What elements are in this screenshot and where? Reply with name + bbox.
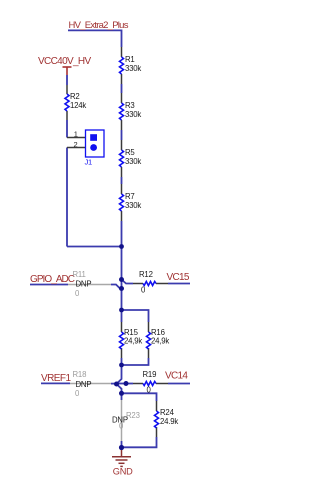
svg-text:R1: R1 xyxy=(125,55,135,64)
svg-text:HV_Extra2_Plus: HV_Extra2_Plus xyxy=(69,20,129,31)
svg-text:DNP: DNP xyxy=(76,280,92,289)
svg-text:330k: 330k xyxy=(125,201,141,210)
svg-text:R16: R16 xyxy=(151,328,165,337)
svg-text:R11: R11 xyxy=(73,270,86,279)
svg-text:DNP: DNP xyxy=(76,380,92,389)
svg-text:R23: R23 xyxy=(126,411,140,420)
svg-text:R15: R15 xyxy=(124,328,139,337)
svg-text:R19: R19 xyxy=(143,370,157,379)
svg-text:R2: R2 xyxy=(70,92,80,101)
svg-text:VCC40V_HV: VCC40V_HV xyxy=(38,56,91,67)
svg-text:GPIO_ADC: GPIO_ADC xyxy=(30,274,75,285)
svg-text:VREF1: VREF1 xyxy=(41,373,71,384)
svg-text:R3: R3 xyxy=(125,101,135,110)
svg-text:R5: R5 xyxy=(125,148,135,157)
svg-text:330k: 330k xyxy=(125,110,141,119)
svg-text:R12: R12 xyxy=(139,270,153,279)
svg-text:R7: R7 xyxy=(125,192,135,201)
svg-text:124k: 124k xyxy=(70,101,86,110)
svg-text:24,9k: 24,9k xyxy=(151,337,169,346)
svg-text:1: 1 xyxy=(74,130,78,139)
svg-text:GND: GND xyxy=(113,466,133,476)
svg-text:330k: 330k xyxy=(125,64,141,73)
svg-text:24.9k: 24.9k xyxy=(160,417,178,426)
svg-text:R24: R24 xyxy=(160,408,175,417)
svg-text:J1: J1 xyxy=(85,158,93,167)
svg-text:R18: R18 xyxy=(73,370,87,379)
svg-text:2: 2 xyxy=(74,140,78,149)
svg-text:24,9k: 24,9k xyxy=(124,337,142,346)
svg-text:330k: 330k xyxy=(125,157,141,166)
svg-text:VC15: VC15 xyxy=(167,272,190,283)
svg-text:VC14: VC14 xyxy=(165,370,188,381)
